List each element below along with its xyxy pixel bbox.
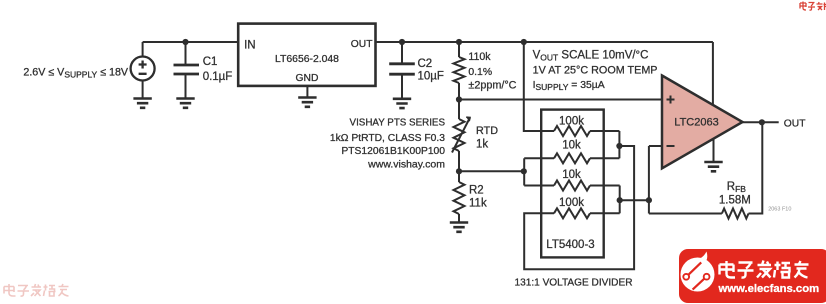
node divider tap B <box>617 197 623 203</box>
svg-text:0.1µF: 0.1µF <box>203 71 233 83</box>
wire divider right bar 2 <box>619 186 621 214</box>
wire feedback bottom <box>649 122 762 213</box>
ground G5 (R2) <box>450 223 468 232</box>
watermark logo trace <box>683 262 709 289</box>
svg-text:GND: GND <box>296 73 319 84</box>
svg-text:131:1 VOLTAGE DIVIDER: 131:1 VOLTAGE DIVIDER <box>515 278 633 289</box>
ground G1 (source) <box>133 99 151 108</box>
ground G2 (C1) <box>176 99 194 108</box>
watermark chinese char 5 <box>795 261 809 278</box>
svg-text:IN: IN <box>244 40 256 52</box>
capacitor C2 <box>389 64 415 74</box>
node vref tap <box>521 39 527 45</box>
wire left rail <box>458 42 460 223</box>
node RTD bottom <box>456 168 462 174</box>
wire divider left bar <box>523 158 525 185</box>
regulator U1 LT6656 box <box>238 24 375 86</box>
svg-text:RFB: RFB <box>727 181 747 194</box>
watermark chinese char 3 <box>757 261 771 278</box>
op-amp U2 LTC2063 <box>662 76 743 169</box>
node 110k top <box>456 39 462 45</box>
wire source stem bottom <box>142 81 144 99</box>
wire minus node vertical <box>648 146 650 214</box>
node divider tap A <box>616 143 622 149</box>
watermark red box <box>679 249 826 303</box>
wire R5400B left lead <box>524 185 554 187</box>
wire bottom loop <box>524 146 634 269</box>
svg-text:ISUPPLY = 35µA: ISUPPLY = 35µA <box>533 80 605 92</box>
watermark chinese char 1 <box>720 261 736 278</box>
ground G6 (op-amp) <box>704 162 722 171</box>
wire R5400A right lead <box>590 130 619 132</box>
svg-text:2.6V ≤ VSUPPLY ≤ 18V: 2.6V ≤ VSUPPLY ≤ 18V <box>23 67 129 80</box>
resistor RFB 1.58M <box>722 209 749 219</box>
wire R5400D right lead <box>590 212 620 214</box>
svg-text:C2: C2 <box>418 58 433 70</box>
svg-text:1.58M: 1.58M <box>719 195 751 207</box>
resistor network box LT5400 <box>541 110 604 258</box>
resistor RA 100k <box>554 126 590 136</box>
resistor 110k <box>454 57 465 83</box>
svg-text:R2: R2 <box>469 185 484 197</box>
svg-text:1kΩ PtRTD, CLASS F0.3: 1kΩ PtRTD, CLASS F0.3 <box>330 133 445 144</box>
wire top rail right <box>376 41 713 43</box>
node divider left tap <box>521 168 527 174</box>
wire R5400C right lead <box>590 185 620 187</box>
watermark logo drop <box>681 252 715 292</box>
wire R5400B right lead <box>590 157 619 159</box>
wire LT6656 gnd pin <box>306 86 308 98</box>
watermark chinese char 4 <box>774 262 791 278</box>
svg-text:VISHAY PTS SERIES: VISHAY PTS SERIES <box>350 117 446 128</box>
svg-text:10k: 10k <box>562 140 581 152</box>
watermark top-right corner mark <box>800 2 826 11</box>
node C2 top <box>399 39 405 45</box>
svg-text:www.elecfans.com: www.elecfans.com <box>718 283 820 295</box>
wire vref feed <box>524 42 554 131</box>
svg-text:±2ppm/°C: ±2ppm/°C <box>468 80 516 92</box>
svg-text:www.vishay.com: www.vishay.com <box>367 158 445 170</box>
svg-text:10µF: 10µF <box>418 71 444 83</box>
svg-text:C1: C1 <box>203 56 218 68</box>
svg-text:OUT: OUT <box>784 118 806 129</box>
node C1 top <box>182 39 188 45</box>
wire R5400A left lead <box>524 157 554 159</box>
svg-text:LT5400-3: LT5400-3 <box>546 239 594 251</box>
svg-text:VOUT SCALE 10mV/°C: VOUT SCALE 10mV/°C <box>533 49 649 62</box>
svg-text:0.1%: 0.1% <box>468 67 492 78</box>
node feedback <box>646 197 652 203</box>
wire opamp gnd stem <box>713 139 715 162</box>
wire output <box>743 121 779 123</box>
ground G4 (C2) <box>393 99 411 108</box>
resistor RTD <box>452 117 470 152</box>
svg-text:LT6656-2.048: LT6656-2.048 <box>275 54 339 65</box>
wire minus input <box>649 145 663 147</box>
ground G3 (LT6656 GND) <box>298 98 316 107</box>
svg-text:11k: 11k <box>469 197 487 209</box>
resistor RC 10k <box>554 181 590 191</box>
svg-text:1k: 1k <box>476 138 488 150</box>
wire RTD tap <box>459 170 524 172</box>
resistor R2 <box>454 182 465 214</box>
svg-text:100k: 100k <box>559 116 584 128</box>
node output <box>759 119 765 125</box>
watermark chinese char 2 <box>738 263 754 278</box>
wire divider right bar 1 <box>618 131 620 158</box>
wire top rail left <box>143 41 239 43</box>
resistor RB 10k <box>554 153 590 163</box>
voltage source V1 <box>131 57 155 81</box>
node RTD top <box>456 96 462 102</box>
wire divider tap 2 <box>620 199 649 201</box>
svg-text:2063 F10: 2063 F10 <box>768 207 791 213</box>
svg-text:LTC2063: LTC2063 <box>674 117 718 129</box>
watermark bottom-left faint mark <box>4 284 69 296</box>
svg-text:110k: 110k <box>468 51 491 63</box>
svg-text:1V AT 25°C ROOM TEMP: 1V AT 25°C ROOM TEMP <box>533 64 658 76</box>
wire opamp supply <box>712 42 714 104</box>
resistor RD 100k <box>554 208 590 218</box>
wire plus input <box>459 99 663 101</box>
svg-text:10k: 10k <box>562 169 581 181</box>
wire C1 stem <box>185 42 187 99</box>
svg-text:RTD: RTD <box>476 125 498 137</box>
capacitor C1 <box>174 65 200 74</box>
svg-text:PTS12061B1K00P100: PTS12061B1K00P100 <box>341 146 445 157</box>
wire source stem top <box>142 42 144 57</box>
svg-text:100k: 100k <box>559 197 584 209</box>
wire C2 stem <box>401 42 403 99</box>
svg-text:OUT: OUT <box>351 39 373 50</box>
